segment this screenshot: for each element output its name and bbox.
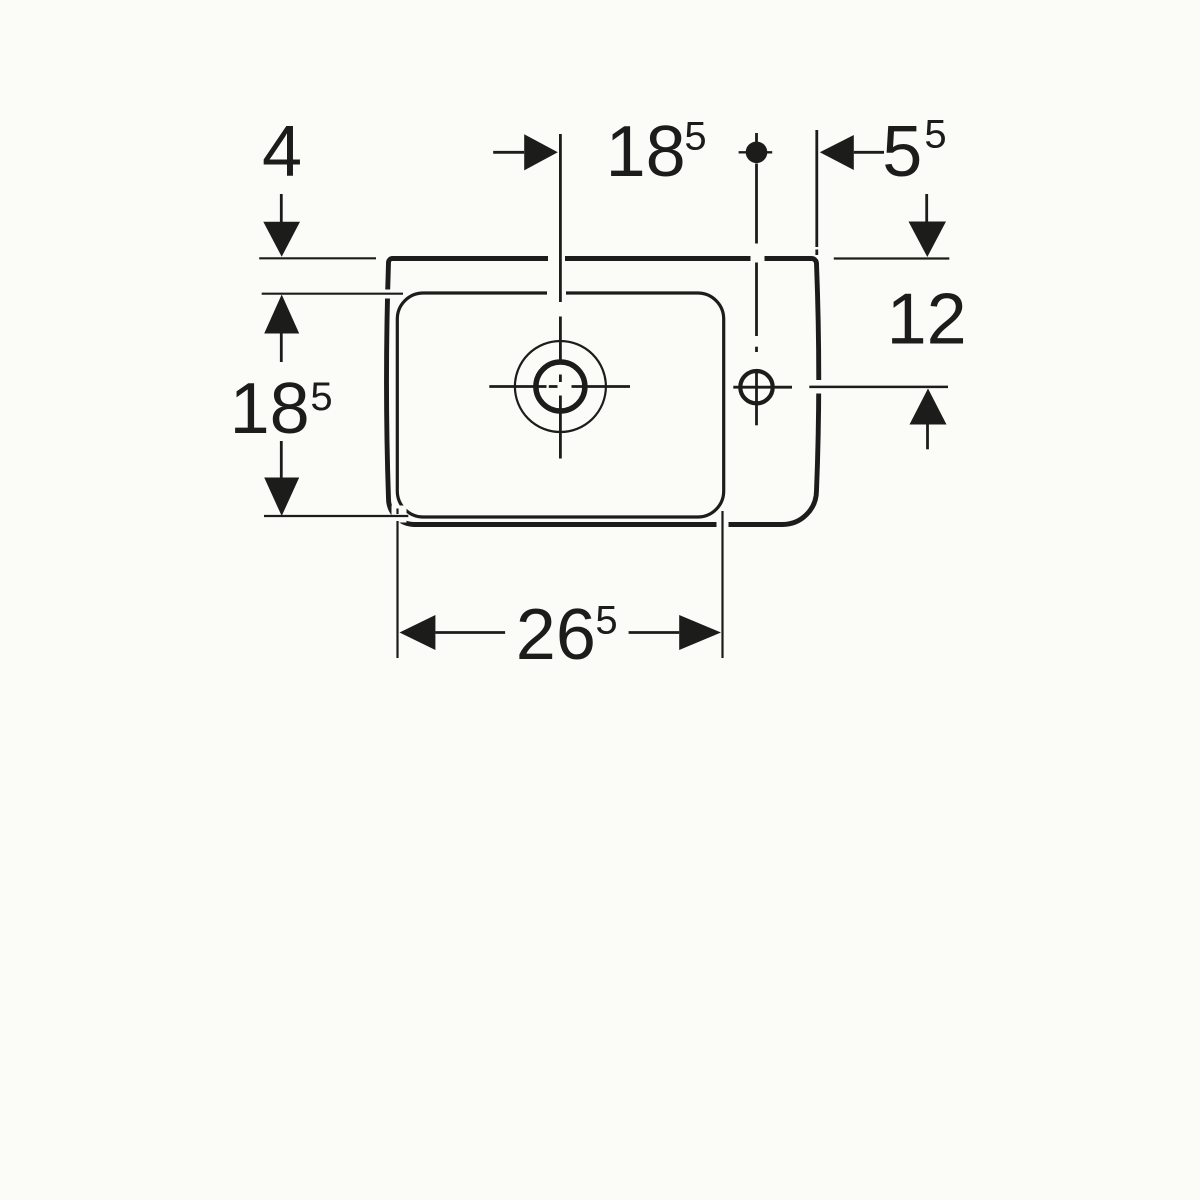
svg-text:5: 5 — [882, 112, 922, 192]
tap hole horizontal centre line — [733, 386, 792, 389]
dimension 4 down arrowhead — [263, 222, 300, 257]
gap in outer bottom-left corner at extension lines — [392, 506, 407, 523]
extension line of outer top edge (right) — [834, 257, 950, 259]
dimension 26.5 left boundary line upper dash — [396, 509, 398, 515]
dimension 18.5 left up arrowhead — [264, 295, 299, 334]
tap hole reference dot — [746, 142, 768, 164]
extension line at tap hole height (right) — [809, 386, 948, 389]
drain outer circle — [515, 341, 606, 432]
drain inner ring — [536, 362, 585, 411]
tap dot horizontal tick — [739, 151, 773, 153]
dimension 18.5 left lower tail — [280, 441, 283, 478]
extension line of inner bottom edge (left) — [264, 515, 408, 517]
svg-text:5: 5 — [684, 115, 706, 159]
drain horizontal centre line — [489, 385, 630, 388]
dimension 26.5 right tail — [629, 631, 680, 634]
washbasin inner bowl outline — [397, 293, 723, 517]
washbasin outer outline — [387, 259, 819, 525]
svg-text:26: 26 — [516, 595, 596, 675]
svg-text:5: 5 — [595, 599, 617, 643]
gap in outer right edge at 12-dimension line — [809, 380, 825, 394]
dimension 26.5 left arrowhead — [400, 615, 436, 650]
tap hole vertical centre line — [755, 133, 758, 425]
svg-text:5: 5 — [310, 375, 332, 419]
gap in outer top edge at drain centre line — [548, 251, 565, 266]
dimension 12 lower arrow tail — [926, 424, 929, 449]
drain vertical centre line — [559, 134, 562, 459]
dimension 12 up arrowhead — [910, 389, 947, 425]
svg-text:4: 4 — [262, 112, 302, 192]
svg-text:18: 18 — [230, 369, 310, 449]
tap hole circle — [740, 371, 772, 403]
svg-text:5: 5 — [924, 113, 946, 157]
svg-text:18: 18 — [606, 112, 686, 192]
dimension 5.5 tail — [854, 151, 884, 154]
dimension 18.5 left down arrowhead — [264, 478, 299, 517]
dimension 5.5 boundary line lower dash — [815, 250, 818, 256]
extension line of outer top edge (left) — [259, 257, 376, 259]
dimension 26.5 right arrowhead — [679, 615, 721, 650]
dimension 26.5 left tail — [435, 631, 505, 634]
dimension 18.5 left upper tail — [280, 334, 283, 363]
gap in outer top edge at tap centre line — [751, 251, 765, 266]
dimension 12 upper arrow tail — [925, 194, 928, 222]
gap in inner top edge at drain centre line — [547, 287, 566, 300]
dimension 4 arrow tail — [280, 194, 283, 223]
dimension 12 down arrowhead — [909, 222, 947, 258]
extension line of inner top edge (left) — [262, 293, 403, 295]
dimension 26.5 right boundary line — [721, 511, 723, 658]
svg-text:12: 12 — [887, 280, 967, 360]
gap in outer bottom edge at 26.5-dimension line — [717, 517, 729, 532]
dimension 18.5 top tail — [493, 151, 524, 154]
gap in outer left edge at inner-top extension line — [383, 290, 394, 299]
dimension 18.5 top right arrowhead — [524, 134, 558, 170]
dimension 5.5 left arrowhead — [820, 135, 854, 170]
dimension 5.5 boundary line at outer right edge — [815, 130, 818, 247]
dimension 26.5 left boundary line — [396, 521, 398, 658]
